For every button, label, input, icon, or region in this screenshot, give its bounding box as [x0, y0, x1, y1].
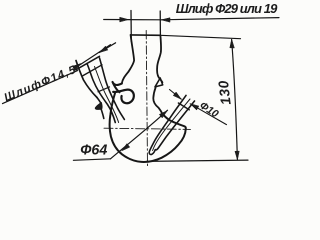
dimension D10: left arrowhead [173, 92, 181, 99]
dimension D29: right extension line [159, 11, 161, 35]
tube D10: right wall [155, 101, 194, 150]
tube D10: top rim [178, 103, 189, 110]
dimension D29: dimension line and label underline [104, 18, 279, 20]
side neck middle line [95, 67, 119, 123]
bulb horizontal centerline [104, 128, 191, 129]
dimension D10: right arrowhead [190, 104, 199, 110]
dimension 130: top arrowhead [230, 39, 234, 48]
dimension D14.5: right arrow tail [99, 43, 115, 53]
neck top rim [131, 34, 161, 36]
dimension D29: left extension line [130, 11, 132, 42]
svg-text:130: 130 [215, 80, 234, 106]
side neck inner wall b [87, 64, 115, 123]
bulb upper-right S-wall [153, 88, 162, 114]
neck right wall [157, 35, 162, 82]
dimension D64: label underline [73, 159, 110, 161]
side-neck junction tail [101, 109, 104, 118]
dimension D10: right dimension line and label underline [190, 104, 226, 125]
dimension D14.5: right arrowhead [99, 46, 107, 52]
side-neck junction beak (filled hook) [95, 102, 102, 109]
side-neck junction wall tip [97, 98, 101, 104]
left lower scroll loop with tail [113, 90, 134, 104]
side neck grinding zone second line [83, 65, 102, 76]
side neck mid cross tick [98, 87, 110, 92]
tube D10: left wall with end hook [149, 95, 186, 154]
neck left wall [122, 35, 134, 84]
dimension D29: right arrowhead [161, 18, 170, 22]
side neck (14.5) rim line [76, 56, 100, 70]
dimension D64: diagonal diameter leader [111, 110, 168, 159]
dimension 130: bottom extension line [147, 160, 249, 161]
side neck right wall [100, 58, 125, 120]
dimension D14.5: label underline leader [3, 71, 78, 104]
dimension 130: bottom arrowhead [235, 151, 239, 160]
dimension D64: lower arrowhead [122, 144, 130, 151]
dimension D14.5: dimension line diagonal [76, 45, 111, 68]
dimension D10: left dimension segment [170, 90, 182, 100]
svg-text:Ф64: Ф64 [80, 143, 107, 159]
dimension D64: upper arrowhead [159, 111, 167, 118]
dimension D14.5: left arrowhead [72, 64, 80, 71]
left shoulder wave crest [113, 82, 122, 92]
vertical centerline [146, 31, 147, 167]
right shoulder open-triangle hook [155, 78, 163, 87]
svg-text:Шлиф Ф29 или 19: Шлиф Ф29 или 19 [176, 1, 278, 16]
dimension 130: vertical dimension line [232, 40, 238, 160]
flask bulb outline [110, 93, 186, 162]
tube D10: middle line [153, 99, 190, 151]
side neck outer wall [76, 61, 97, 98]
dimension D29: left arrowhead [120, 17, 129, 22]
dimension 130: top extension line [160, 35, 240, 38]
